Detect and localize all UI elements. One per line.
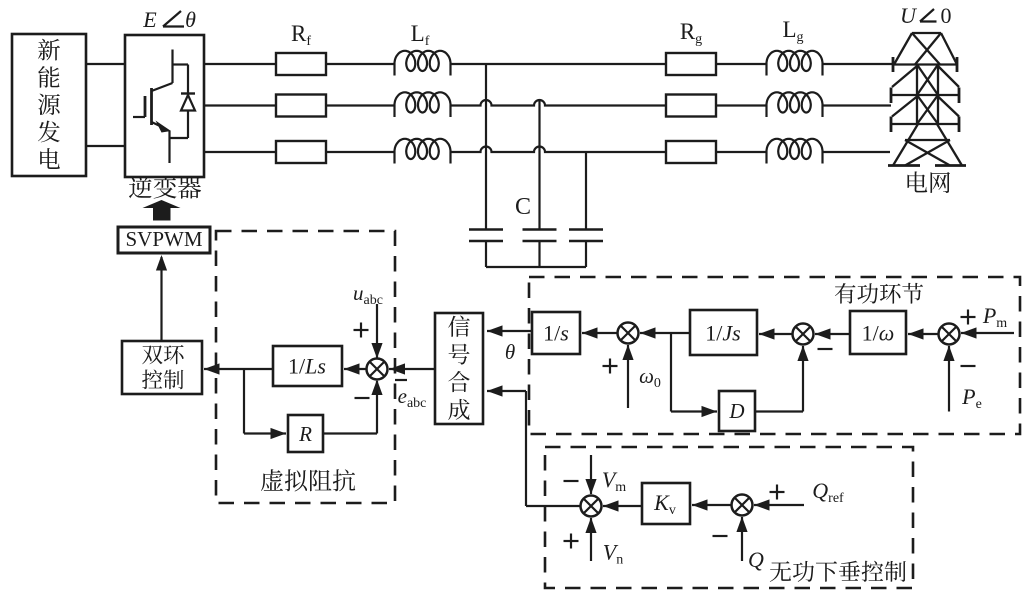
inductor Lf phase1 — [395, 51, 451, 76]
wire reactive loop to signal-synth — [487, 390, 526, 392]
wire D to summerC — [755, 410, 803, 412]
svg-text:R: R — [298, 422, 312, 446]
diode D1 — [173, 63, 189, 65]
capacitor C2 — [523, 228, 557, 231]
thick arrow SVPWM to inverter — [143, 200, 181, 221]
dashed box 无功下垂控制 — [545, 447, 913, 588]
dual-loop control box 双环控制 — [122, 341, 202, 394]
wire Rg to Lg phase1 — [716, 63, 767, 65]
wire summerE output left — [526, 505, 581, 507]
wire phase3 Lf to Rg with hops — [451, 147, 666, 153]
dashed box 虚拟阻抗 — [216, 231, 395, 503]
minus sign R feedback — [355, 397, 370, 399]
tap to D — [670, 333, 672, 412]
summing junction E (voltage) — [581, 496, 602, 517]
wire vertical from reactive summer — [525, 391, 527, 506]
wire Vm into summerE — [590, 455, 592, 494]
resistor Rg phase1 — [666, 53, 716, 75]
wire summerF to Kv — [692, 504, 732, 506]
grid tower — [912, 32, 941, 34]
wire 1/s to signal-synth (theta) — [487, 330, 532, 332]
wire Rf to Lf phase3 — [326, 151, 395, 153]
wire Rg to Lg phase3 — [716, 151, 767, 153]
minus D feedback — [818, 348, 833, 350]
wire 1/ω to summerC — [815, 333, 850, 335]
plus omega0 — [603, 365, 618, 367]
wire phase2 inverter to Rf — [204, 104, 276, 106]
capacitor neutral bus — [486, 266, 586, 268]
box D — [719, 391, 755, 431]
wire Vn into summerE — [590, 518, 592, 561]
inverter U1 box — [125, 35, 204, 177]
wire drop phase1 to C1 — [485, 64, 487, 229]
wire Rg to Lg phase2 — [716, 104, 767, 106]
box 1/ω — [850, 311, 906, 354]
label 逆变器 — [129, 176, 201, 199]
summing junction D(power) — [939, 324, 960, 345]
svg-text:0: 0 — [941, 3, 952, 28]
svg-text:Q: Q — [748, 547, 764, 572]
wire summerB to 1/s — [582, 332, 618, 334]
wire Kv to summerE — [603, 505, 642, 507]
box 1/Ls — [273, 346, 342, 386]
wire phase3 inverter to Rf — [204, 151, 276, 153]
resistor Rf phase1 — [276, 53, 326, 75]
inductor Lf phase2 — [395, 92, 451, 117]
wire Rf to Lf phase1 — [326, 63, 395, 65]
wire Lg to grid phase1 — [823, 63, 893, 65]
wire phase1 Lf to Rg — [451, 63, 666, 65]
wire Lg to grid phase3 — [823, 151, 890, 153]
resistor Rf phase2 — [276, 95, 326, 117]
inductor Lf phase3 — [395, 139, 451, 164]
minus Q — [713, 535, 728, 537]
plus Qref — [770, 491, 785, 493]
label 电网 — [907, 171, 950, 193]
wire Qref into summerF — [754, 504, 804, 506]
summing junction C — [793, 324, 814, 345]
wire Pe into summerD — [948, 346, 950, 412]
wire 1/Ls to dual-loop — [204, 368, 273, 370]
wire drop phase2 to C2 — [538, 101, 540, 230]
inductor Lg phase2 — [767, 92, 823, 117]
wire Pm into summerD — [961, 332, 1014, 334]
capacitor C1 — [469, 228, 503, 231]
wire omega0 into summerB — [627, 345, 629, 408]
resistor Rf phase3 — [276, 141, 326, 163]
wire Rf to Lf phase2 — [326, 104, 395, 106]
source box 新能源发电 — [12, 34, 86, 176]
wire phase1 inverter to Rf — [204, 63, 276, 65]
plus Pm — [961, 316, 976, 318]
summing junction virtual impedance — [367, 359, 388, 380]
svg-text:1/ω: 1/ω — [862, 321, 895, 346]
svg-text:1/Ls: 1/Ls — [288, 354, 326, 379]
feedback tap to R — [243, 369, 245, 434]
plus Vn — [564, 540, 579, 542]
svg-text:D: D — [728, 399, 744, 423]
wire signal-synth to summer (e_abc) — [389, 368, 435, 370]
tick e_abc — [395, 379, 407, 381]
IGBT Q1 — [171, 50, 173, 84]
inductor Lg phase1 — [767, 51, 823, 76]
svg-text:SVPWM: SVPWM — [125, 227, 202, 251]
wire u_abc into summer — [376, 304, 378, 358]
wire summerC to 1/Js — [759, 333, 793, 335]
box R — [288, 415, 323, 452]
box Kv — [642, 483, 690, 524]
summing junction omega — [618, 323, 639, 344]
arrow dual-loop to SVPWM — [160, 257, 162, 341]
dashed box 有功环节 — [529, 277, 1020, 434]
svg-text:1/Js: 1/Js — [705, 321, 740, 346]
summing junction F (Q) — [732, 495, 753, 516]
wire R to summer bottom — [323, 432, 377, 434]
wire summerD to 1/ω — [908, 333, 939, 335]
plus sign u_abc — [354, 329, 369, 331]
SVPWM box — [118, 227, 210, 253]
resistor Rg phase2 — [666, 95, 716, 117]
svg-text:C: C — [515, 194, 531, 220]
svg-text:E: E — [142, 7, 157, 32]
box 1/s — [532, 312, 580, 354]
box 信号合成 — [435, 313, 483, 424]
wire phase2 Lf to Rg with hops — [451, 100, 666, 106]
minus Vm — [564, 480, 579, 482]
wire Q into summerF — [741, 517, 743, 561]
svg-text:1/s: 1/s — [543, 321, 569, 346]
box 1/Js — [690, 310, 757, 355]
wire drop phase3 to C3 — [585, 152, 587, 229]
svg-text:θ: θ — [185, 7, 196, 32]
wire source to inverter bottom — [86, 145, 125, 147]
wire Lg to grid phase2 — [823, 104, 891, 106]
inductor Lg phase3 — [767, 139, 823, 164]
resistor Rg phase3 — [666, 141, 716, 163]
svg-text:U: U — [900, 3, 918, 28]
wire 1/Js to summerB — [640, 332, 690, 334]
svg-text:θ: θ — [505, 340, 515, 364]
capacitor C3 — [569, 228, 603, 231]
wire summer to 1/Ls — [344, 368, 367, 370]
wire source to inverter top — [86, 63, 125, 65]
minus Pe — [961, 365, 976, 367]
